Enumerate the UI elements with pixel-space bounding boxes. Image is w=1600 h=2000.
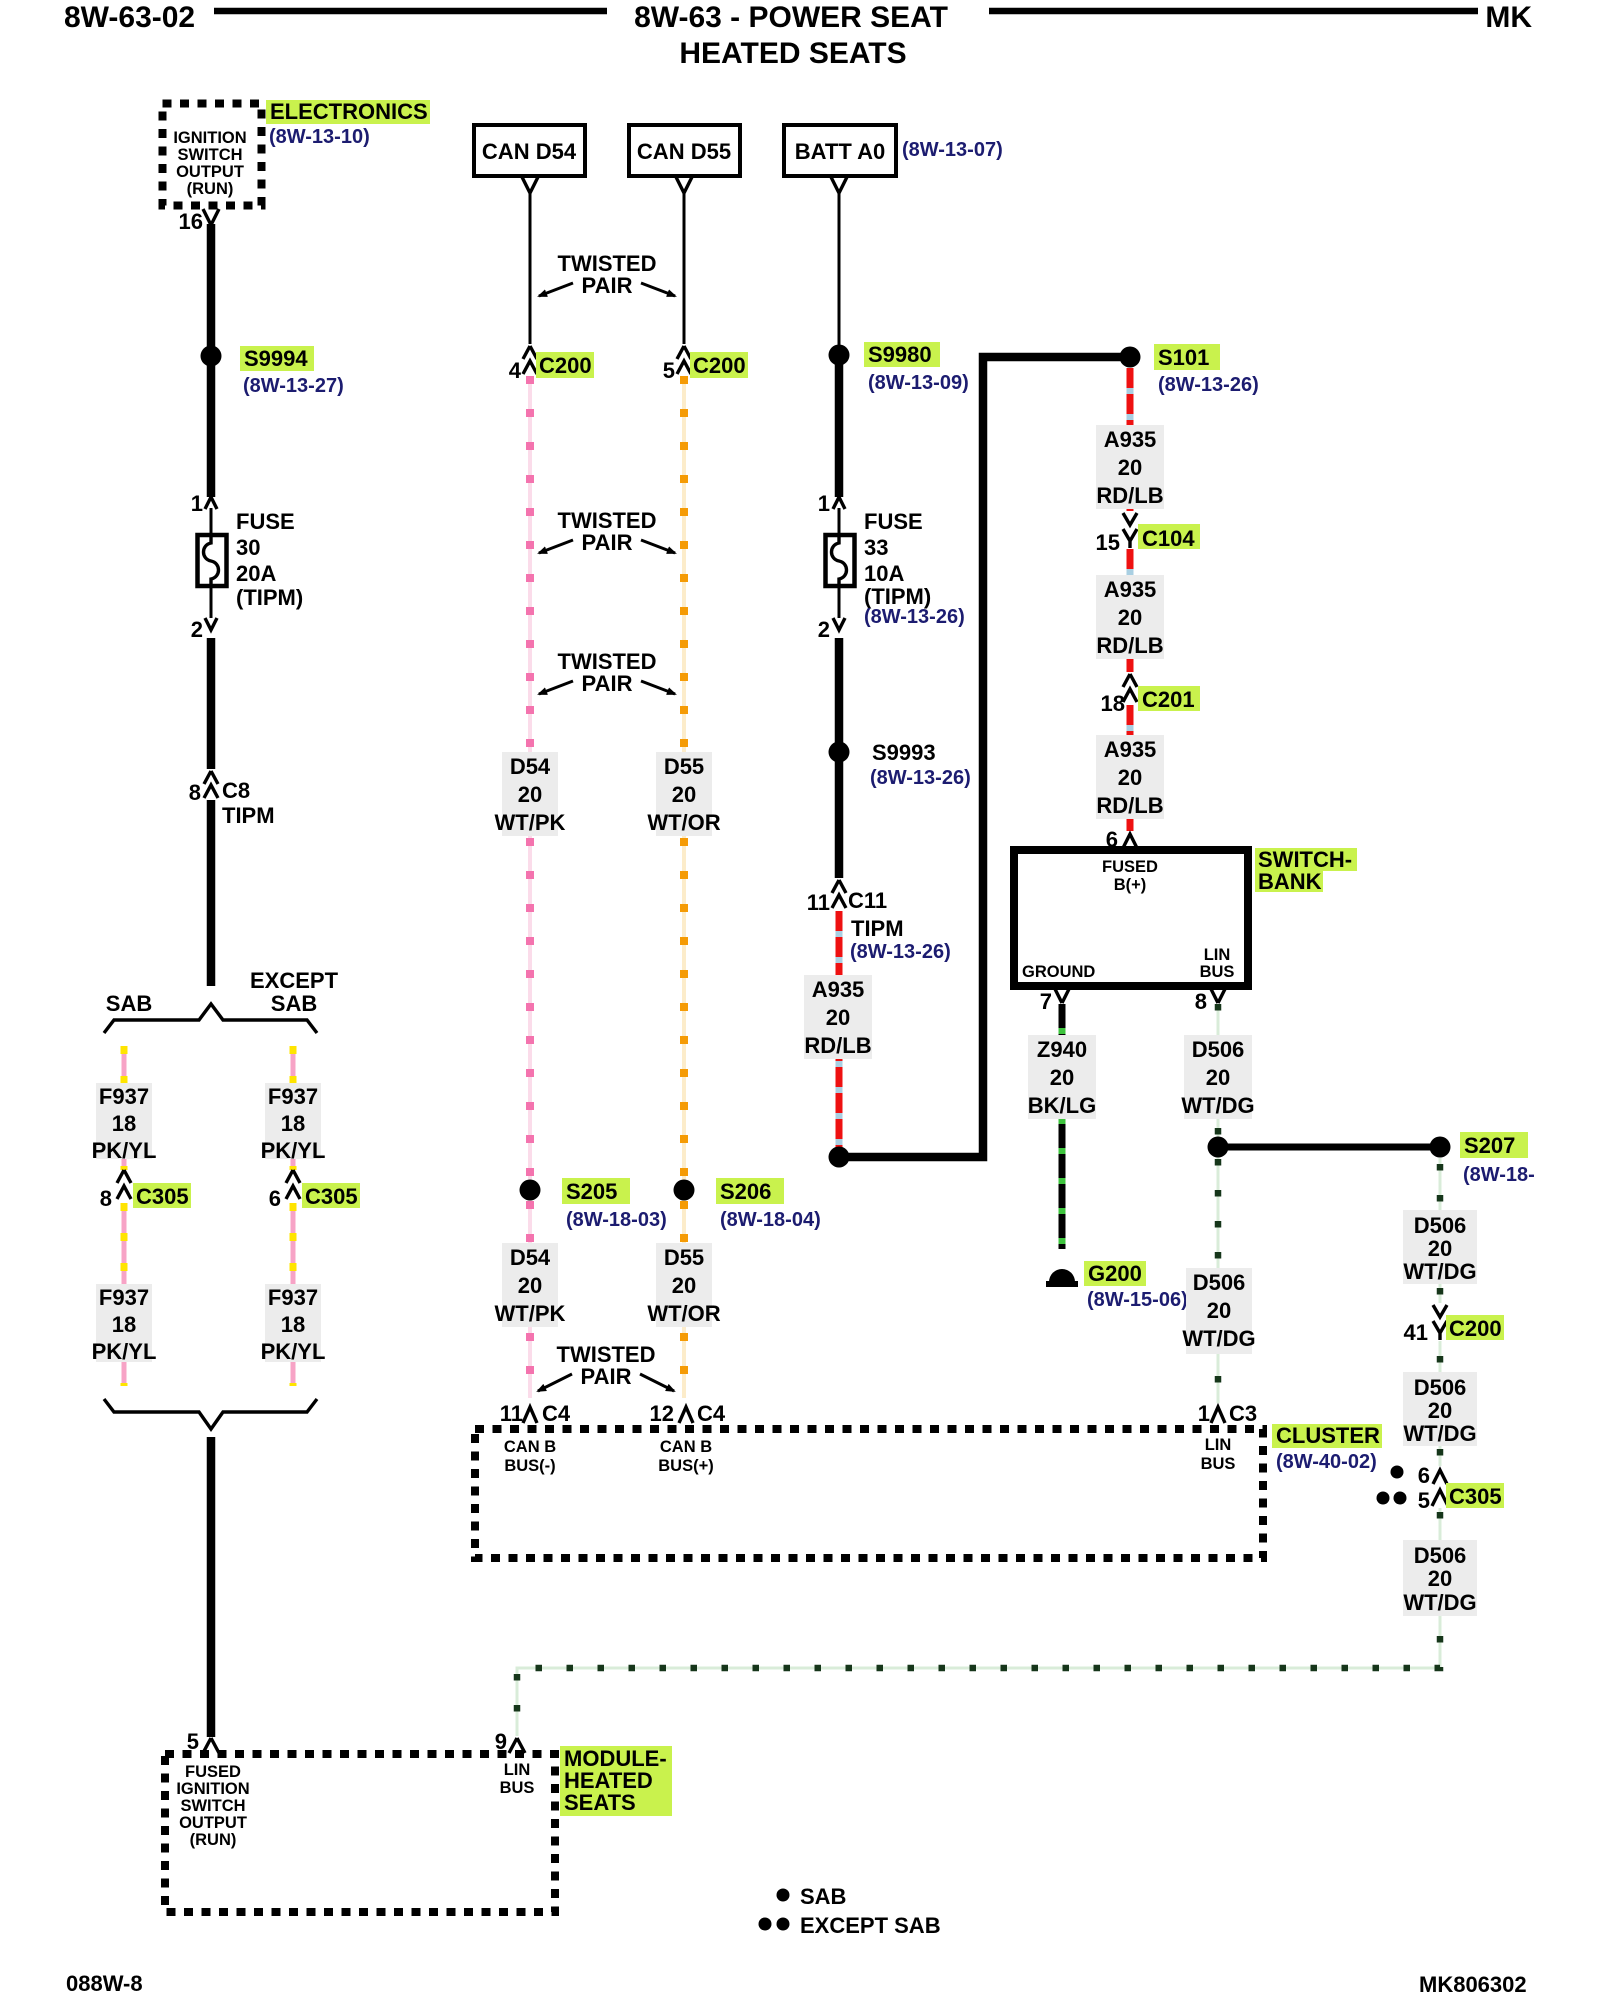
- fuse F30: [198, 535, 227, 586]
- svg-text:5: 5: [1418, 1488, 1430, 1513]
- svg-text:20: 20: [1428, 1236, 1452, 1261]
- svg-text:11: 11: [807, 890, 830, 915]
- svg-text:FUSE: FUSE: [236, 509, 295, 534]
- svg-text:D55: D55: [664, 1245, 704, 1270]
- cluster box: [475, 1429, 1263, 1558]
- svg-text:10A: 10A: [864, 561, 904, 586]
- svg-text:(TIPM): (TIPM): [236, 585, 303, 610]
- label A935 20 RD/LB (3): [1096, 735, 1164, 819]
- svg-text:CAN D55: CAN D55: [637, 139, 731, 164]
- svg-text:SWITCH: SWITCH: [177, 146, 242, 164]
- connector C104 pin 15: [1123, 513, 1137, 548]
- svg-text:(8W-13-26): (8W-13-26): [870, 767, 971, 789]
- svg-text:20: 20: [672, 782, 696, 807]
- splice S205: [520, 1180, 541, 1201]
- label Z940 20 BK/LG: [1028, 1035, 1096, 1119]
- connector C11: [832, 880, 846, 908]
- svg-text:6: 6: [269, 1186, 281, 1211]
- svg-text:20A: 20A: [236, 561, 276, 586]
- label F937 18 PK/YL (SAB lower): [96, 1284, 152, 1362]
- svg-text:D54: D54: [510, 1245, 551, 1270]
- svg-text:(8W-18-03): (8W-18-03): [566, 1209, 667, 1231]
- svg-text:S206: S206: [720, 1179, 771, 1204]
- svg-text:12: 12: [650, 1401, 674, 1426]
- svg-text:BK/LG: BK/LG: [1028, 1093, 1096, 1118]
- svg-text:5: 5: [187, 1729, 199, 1754]
- label MODULE-HEATED SEATS: [560, 1746, 672, 1816]
- svg-text:FUSED: FUSED: [1102, 858, 1158, 876]
- label F937 18 PK/YL (EXCEPT SAB upper): [265, 1083, 321, 1159]
- svg-text:B(+): B(+): [1114, 876, 1147, 894]
- label A935 20 RD/LB (2): [1096, 575, 1164, 659]
- connector C8: [204, 771, 218, 798]
- svg-text:RD/LB: RD/LB: [1096, 793, 1163, 818]
- wire PK/YL EXCEPT-SAB branch upper: [291, 1046, 296, 1170]
- wire merge to module pin5: [207, 1437, 216, 1737]
- svg-text:30: 30: [236, 535, 260, 560]
- svg-text:RD/LB: RD/LB: [1096, 633, 1163, 658]
- svg-text:C3: C3: [1229, 1401, 1257, 1426]
- svg-text:CAN B: CAN B: [660, 1438, 712, 1456]
- svg-text:PK/YL: PK/YL: [261, 1138, 326, 1163]
- wire S9994 to fuse pin1: [207, 365, 216, 497]
- wire junction to S207: [1218, 1144, 1436, 1151]
- svg-text:20: 20: [826, 1005, 850, 1030]
- wire CAN D55 down: [683, 193, 686, 344]
- svg-text:TIPM: TIPM: [851, 916, 904, 941]
- svg-text:A935: A935: [812, 977, 865, 1002]
- pin BATT A0: [831, 177, 847, 193]
- svg-text:PAIR: PAIR: [581, 1364, 632, 1389]
- svg-text:GROUND: GROUND: [1022, 963, 1095, 981]
- svg-text:S9980: S9980: [868, 342, 932, 367]
- svg-text:C104: C104: [1142, 526, 1195, 551]
- svg-text:(8W-40-02): (8W-40-02): [1276, 1451, 1377, 1473]
- wire pin2 to C8: [207, 638, 216, 769]
- svg-text:18: 18: [112, 1111, 136, 1136]
- svg-text:CLUSTER: CLUSTER: [1276, 1423, 1380, 1448]
- svg-text:C8: C8: [222, 778, 250, 803]
- svg-text:20: 20: [518, 1273, 542, 1298]
- svg-text:8: 8: [1195, 989, 1207, 1014]
- svg-text:FUSED: FUSED: [185, 1763, 241, 1781]
- svg-text:RD/LB: RD/LB: [1096, 483, 1163, 508]
- svg-text:D54: D54: [510, 754, 551, 779]
- junction node lin col: [1208, 1137, 1229, 1158]
- label CLUSTER: [1272, 1424, 1382, 1448]
- svg-text:RD/LB: RD/LB: [804, 1033, 871, 1058]
- svg-text:WT/PK: WT/PK: [495, 1301, 566, 1326]
- svg-text:PK/YL: PK/YL: [92, 1138, 157, 1163]
- svg-text:MK806302: MK806302: [1419, 1972, 1527, 1997]
- svg-text:20: 20: [1206, 1065, 1230, 1090]
- svg-text:OUTPUT: OUTPUT: [176, 163, 244, 181]
- wire PK/YL EXCEPT-SAB branch lower: [291, 1203, 296, 1386]
- svg-text:(8W-13-26): (8W-13-26): [850, 941, 951, 963]
- svg-text:1: 1: [1198, 1401, 1210, 1426]
- connector C305 pin 6: [286, 1170, 300, 1199]
- svg-text:7: 7: [1040, 989, 1052, 1014]
- svg-text:Z940: Z940: [1037, 1037, 1087, 1062]
- wire Z940 BK/LG: [1059, 1004, 1066, 1249]
- svg-text:TIPM: TIPM: [222, 803, 275, 828]
- svg-text:D506: D506: [1192, 1037, 1245, 1062]
- header rule left: [214, 8, 607, 15]
- label D506 20 WT/DG (lin col lower): [1186, 1268, 1252, 1354]
- svg-text:1: 1: [818, 491, 830, 516]
- wire PK/YL SAB branch lower: [122, 1203, 127, 1386]
- svg-text:BUS(-): BUS(-): [504, 1457, 555, 1475]
- svg-text:1: 1: [191, 491, 203, 516]
- split brace top: [104, 1004, 317, 1033]
- svg-text:S9994: S9994: [244, 346, 308, 371]
- svg-text:C200: C200: [1449, 1316, 1502, 1341]
- svg-text:20: 20: [518, 782, 542, 807]
- svg-text:(8W-13-26): (8W-13-26): [1158, 374, 1259, 396]
- junction node batt bottom: [829, 1147, 850, 1168]
- svg-text:8W-63-02: 8W-63-02: [64, 1, 195, 34]
- svg-text:16: 16: [179, 209, 203, 234]
- wire D55 WT/OR: [682, 378, 686, 1398]
- svg-text:IGNITION: IGNITION: [176, 1780, 249, 1798]
- wire BATT down: [838, 193, 841, 346]
- svg-text:LIN: LIN: [1205, 1436, 1232, 1454]
- svg-text:BUS: BUS: [1201, 1455, 1236, 1473]
- wire A935 seg1 (S101 to C104): [1127, 368, 1134, 511]
- svg-text:(8W-13-26): (8W-13-26): [864, 606, 965, 628]
- svg-text:CAN D54: CAN D54: [482, 139, 577, 164]
- svg-text:F937: F937: [99, 1084, 149, 1109]
- label ELECTRONICS: [266, 100, 430, 124]
- svg-text:BUS(+): BUS(+): [658, 1457, 713, 1475]
- splice S101: [1120, 347, 1141, 368]
- svg-text:C305: C305: [1449, 1484, 1502, 1509]
- wire S9993 to C11: [835, 760, 844, 878]
- label D506 20 WT/DG (s207 b): [1403, 1372, 1477, 1446]
- svg-text:D506: D506: [1414, 1213, 1467, 1238]
- svg-text:18: 18: [1101, 691, 1125, 716]
- svg-text:WT/OR: WT/OR: [647, 810, 720, 835]
- connector C201 pin 18: [1123, 674, 1137, 702]
- wire C8 to split: [207, 800, 216, 986]
- svg-text:8W-63 - POWER SEAT: 8W-63 - POWER SEAT: [634, 1, 948, 34]
- wire D506 WT/DG S207 seg2: [1439, 1341, 1442, 1466]
- splice S207: [1430, 1137, 1451, 1158]
- svg-text:C4: C4: [697, 1401, 726, 1426]
- svg-text:D506: D506: [1414, 1543, 1467, 1568]
- label D55 20 WT/OR upper: [656, 752, 712, 836]
- ground G200: [1049, 1269, 1075, 1282]
- box CAN D55: [629, 125, 740, 176]
- svg-text:HEATED SEATS: HEATED SEATS: [679, 37, 906, 70]
- svg-text:20: 20: [1118, 765, 1142, 790]
- connector C305 pins 6/5: [1391, 1466, 1404, 1479]
- svg-text:WT/DG: WT/DG: [1182, 1326, 1255, 1351]
- svg-text:IGNITION: IGNITION: [173, 129, 246, 147]
- svg-text:8: 8: [189, 780, 201, 805]
- connector C200 pin 41: [1433, 1305, 1447, 1340]
- svg-text:(8W-13-09): (8W-13-09): [868, 372, 969, 394]
- splice S9980: [829, 345, 850, 366]
- switch-bank box: [1014, 850, 1248, 986]
- svg-text:C11: C11: [848, 888, 887, 913]
- svg-text:(8W-18-: (8W-18-: [1463, 1164, 1535, 1186]
- svg-text:A935: A935: [1104, 737, 1157, 762]
- wire pin2 to S9993: [835, 638, 844, 744]
- wire stub red cap pin6: [1127, 823, 1134, 831]
- label F937 18 PK/YL (SAB upper): [96, 1083, 152, 1159]
- svg-text:BANK: BANK: [1258, 869, 1322, 894]
- splice S9994: [201, 346, 222, 367]
- svg-text:F937: F937: [268, 1084, 318, 1109]
- svg-text:9: 9: [495, 1729, 507, 1754]
- svg-text:WT/DG: WT/DG: [1403, 1421, 1476, 1446]
- svg-text:18: 18: [112, 1312, 136, 1337]
- svg-text:8: 8: [100, 1186, 112, 1211]
- header rule right: [989, 8, 1478, 15]
- svg-text:PAIR: PAIR: [582, 273, 633, 298]
- svg-text:C4: C4: [542, 1401, 571, 1426]
- box BATT A0: [784, 125, 896, 176]
- svg-text:2: 2: [191, 617, 203, 642]
- svg-text:C305: C305: [136, 1184, 189, 1209]
- label A935 20 RD/LB (1): [1096, 425, 1164, 509]
- svg-text:C305: C305: [305, 1184, 358, 1209]
- svg-text:EXCEPT SAB: EXCEPT SAB: [800, 1913, 941, 1938]
- svg-text:F937: F937: [99, 1285, 149, 1310]
- label SWITCH-BANK: [1255, 848, 1357, 871]
- wire D506 WT/DG S207 seg3 to module: [517, 1508, 1440, 1736]
- svg-text:2: 2: [818, 617, 830, 642]
- box CAN D54: [474, 125, 585, 176]
- svg-text:(8W-13-07): (8W-13-07): [902, 139, 1003, 161]
- svg-text:S9993: S9993: [872, 740, 936, 765]
- svg-text:G200: G200: [1088, 1261, 1142, 1286]
- svg-text:4: 4: [509, 358, 522, 383]
- svg-text:PK/YL: PK/YL: [261, 1339, 326, 1364]
- svg-text:41: 41: [1404, 1320, 1428, 1345]
- svg-text:OUTPUT: OUTPUT: [179, 1814, 247, 1832]
- svg-text:C201: C201: [1142, 687, 1195, 712]
- wire D506 WT/DG (lin col): [1217, 1004, 1220, 1403]
- svg-text:18: 18: [281, 1312, 305, 1337]
- splice S206: [674, 1180, 695, 1201]
- svg-text:MK: MK: [1485, 1, 1532, 34]
- svg-text:WT/DG: WT/DG: [1181, 1093, 1254, 1118]
- wire pin16 to S9994: [207, 224, 216, 347]
- label D506 20 WT/DG (s207 c): [1403, 1540, 1477, 1616]
- fuse F33: [826, 535, 855, 586]
- svg-text:S205: S205: [566, 1179, 617, 1204]
- svg-text:15: 15: [1096, 530, 1120, 555]
- splice S9993: [829, 742, 850, 763]
- svg-text:C200: C200: [693, 353, 746, 378]
- wire PK/YL SAB branch upper: [122, 1046, 127, 1170]
- svg-text:20: 20: [1428, 1566, 1452, 1591]
- svg-text:D506: D506: [1414, 1375, 1467, 1400]
- pin CAN D55: [676, 177, 692, 193]
- svg-text:C200: C200: [539, 353, 592, 378]
- svg-text:WT/DG: WT/DG: [1403, 1259, 1476, 1284]
- wire A935 RD/LB batt column: [836, 911, 843, 1148]
- svg-text:D506: D506: [1193, 1270, 1246, 1295]
- svg-text:20: 20: [1207, 1298, 1231, 1323]
- svg-text:5: 5: [663, 358, 675, 383]
- wire D54 WT/PK: [528, 378, 532, 1398]
- svg-text:PAIR: PAIR: [582, 671, 633, 696]
- svg-text:SAB: SAB: [800, 1884, 846, 1909]
- legend EXCEPT SAB: [759, 1918, 772, 1931]
- wire CAN D54 down: [529, 193, 532, 344]
- svg-text:WT/DG: WT/DG: [1403, 1590, 1476, 1615]
- svg-text:(RUN): (RUN): [190, 1831, 237, 1849]
- svg-text:BUS: BUS: [500, 1779, 535, 1797]
- connector C200 pin 4: [523, 346, 537, 374]
- wire A935 seg3 (C201 to pin6): [1127, 705, 1134, 828]
- merge brace bottom: [104, 1399, 317, 1429]
- svg-text:LIN: LIN: [1204, 946, 1231, 964]
- svg-text:(8W-13-10): (8W-13-10): [269, 126, 370, 148]
- svg-text:6: 6: [1418, 1463, 1430, 1488]
- svg-text:BATT A0: BATT A0: [795, 139, 885, 164]
- svg-text:CAN B: CAN B: [504, 1438, 556, 1456]
- svg-text:(8W-13-27): (8W-13-27): [243, 375, 344, 397]
- svg-text:(8W-18-04): (8W-18-04): [720, 1209, 821, 1231]
- label A935 20 RD/LB (batt): [804, 975, 872, 1059]
- pin CAN D54: [522, 177, 538, 193]
- svg-text:WT/PK: WT/PK: [495, 810, 566, 835]
- svg-text:20: 20: [1118, 605, 1142, 630]
- svg-text:WT/OR: WT/OR: [647, 1301, 720, 1326]
- svg-text:20: 20: [1050, 1065, 1074, 1090]
- label D506 20 WT/DG (lin col upper): [1184, 1035, 1252, 1119]
- svg-text:A935: A935: [1104, 427, 1157, 452]
- svg-text:SWITCH: SWITCH: [180, 1797, 245, 1815]
- svg-text:D55: D55: [664, 754, 704, 779]
- svg-text:A935: A935: [1104, 577, 1157, 602]
- svg-text:33: 33: [864, 535, 888, 560]
- module heated seats box: [165, 1754, 555, 1912]
- svg-text:20: 20: [672, 1273, 696, 1298]
- svg-text:SEATS: SEATS: [564, 1790, 636, 1815]
- connector C305 pin 8: [117, 1170, 131, 1199]
- svg-text:11: 11: [500, 1401, 523, 1426]
- label D55 20 WT/OR lower: [656, 1243, 712, 1327]
- svg-text:SAB: SAB: [106, 991, 152, 1016]
- svg-text:20: 20: [1118, 455, 1142, 480]
- label D54 20 WT/PK upper: [502, 752, 558, 836]
- wire loop to S101: [839, 357, 1126, 1157]
- svg-text:(RUN): (RUN): [187, 180, 234, 198]
- svg-text:PK/YL: PK/YL: [92, 1339, 157, 1364]
- svg-text:BUS: BUS: [1200, 963, 1235, 981]
- svg-text:FUSE: FUSE: [864, 509, 923, 534]
- electronics box (ignition switch output run): [163, 104, 262, 206]
- svg-text:F937: F937: [268, 1285, 318, 1310]
- svg-text:PAIR: PAIR: [582, 530, 633, 555]
- svg-text:(8W-15-06): (8W-15-06): [1087, 1289, 1188, 1311]
- wire S9980 to fuse33: [835, 364, 844, 497]
- svg-text:S101: S101: [1158, 345, 1209, 370]
- label D506 20 WT/DG (s207 a): [1403, 1210, 1477, 1284]
- svg-text:SAB: SAB: [271, 991, 317, 1016]
- svg-text:20: 20: [1428, 1398, 1452, 1423]
- wire D506 WT/DG S207 seg1: [1439, 1158, 1442, 1303]
- svg-text:088W-8: 088W-8: [66, 1971, 143, 1996]
- label D54 20 WT/PK lower: [502, 1243, 558, 1327]
- wire A935 seg2 (C104 to C201): [1127, 549, 1134, 672]
- svg-text:S207: S207: [1464, 1133, 1515, 1158]
- svg-text:LIN: LIN: [504, 1761, 531, 1779]
- legend SAB: [777, 1889, 790, 1902]
- svg-text:18: 18: [281, 1111, 305, 1136]
- svg-text:EXCEPT: EXCEPT: [250, 968, 339, 993]
- connector C200 pin 5: [677, 346, 691, 374]
- svg-text:ELECTRONICS: ELECTRONICS: [270, 99, 428, 124]
- label F937 18 PK/YL (EXCEPT SAB lower): [265, 1284, 321, 1362]
